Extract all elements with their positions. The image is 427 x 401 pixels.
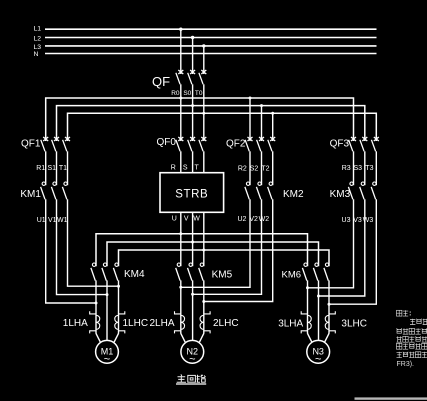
- svg-text:QF2: QF2: [226, 139, 246, 150]
- svg-text:1LHC: 1LHC: [123, 318, 149, 329]
- svg-text:N: N: [34, 51, 39, 58]
- svg-text:U3: U3: [342, 217, 351, 224]
- svg-text:R2: R2: [238, 165, 247, 172]
- svg-text:1LHA: 1LHA: [63, 318, 88, 329]
- svg-text:KM5: KM5: [212, 270, 233, 281]
- svg-text:T2: T2: [261, 165, 269, 172]
- svg-text:V1: V1: [48, 217, 57, 224]
- svg-text:KM4: KM4: [124, 269, 145, 280]
- svg-text:FR3).: FR3).: [397, 361, 415, 368]
- svg-text:R0: R0: [171, 90, 180, 97]
- svg-text:T1: T1: [59, 165, 67, 172]
- svg-text:L3: L3: [34, 44, 42, 51]
- svg-text:3LHC: 3LHC: [341, 319, 367, 330]
- svg-text:T0: T0: [195, 90, 203, 97]
- svg-text:S1: S1: [47, 165, 56, 172]
- svg-text:U2: U2: [237, 216, 246, 223]
- svg-text:L1: L1: [34, 26, 42, 33]
- svg-text:KM1: KM1: [20, 189, 41, 200]
- svg-text:V: V: [184, 215, 189, 222]
- svg-text:R: R: [171, 165, 176, 172]
- svg-text:2LHC: 2LHC: [213, 318, 239, 329]
- svg-text:S: S: [183, 165, 188, 172]
- svg-text:KM2: KM2: [283, 189, 304, 200]
- svg-text:QF3: QF3: [330, 139, 350, 150]
- svg-text:T3: T3: [365, 165, 373, 172]
- svg-text:U: U: [172, 215, 177, 222]
- svg-text:KM3: KM3: [330, 189, 351, 200]
- svg-text:2LHA: 2LHA: [150, 318, 175, 329]
- svg-text:QF1: QF1: [21, 139, 41, 150]
- svg-text:KM6: KM6: [282, 270, 302, 281]
- svg-text:W: W: [193, 215, 200, 222]
- svg-text:R3: R3: [342, 165, 351, 172]
- svg-text:T: T: [195, 165, 200, 172]
- svg-text:U1: U1: [37, 217, 46, 224]
- svg-text:~: ~: [189, 354, 195, 366]
- svg-text:QF: QF: [152, 74, 170, 89]
- svg-text:S3: S3: [353, 165, 362, 172]
- svg-text:3LHA: 3LHA: [278, 319, 303, 330]
- svg-text:W1: W1: [57, 217, 68, 224]
- svg-text:L2: L2: [34, 35, 42, 42]
- svg-text:S0: S0: [183, 90, 191, 97]
- svg-text:V3: V3: [353, 217, 362, 224]
- svg-text:R1: R1: [36, 165, 45, 172]
- svg-text:~: ~: [104, 354, 110, 366]
- svg-text:W2: W2: [259, 216, 270, 223]
- svg-text:QF0: QF0: [157, 137, 177, 148]
- svg-text:STRB: STRB: [175, 188, 208, 200]
- svg-text:S2: S2: [250, 165, 259, 172]
- svg-text:~: ~: [315, 354, 321, 366]
